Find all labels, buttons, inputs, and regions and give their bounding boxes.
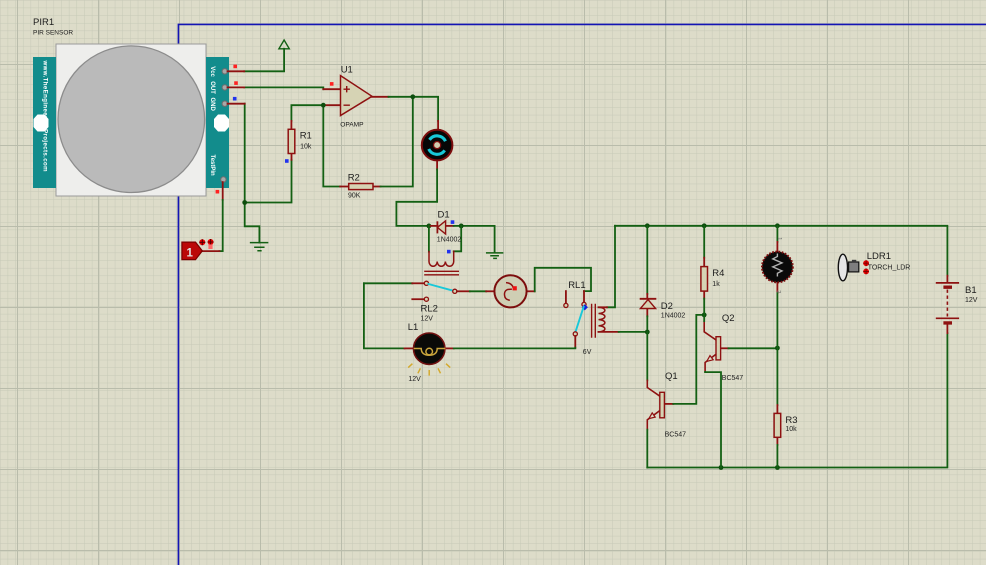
wire R4 bottom to junction (green) xyxy=(703,299,705,315)
LDR (torch ldr) xyxy=(762,237,793,293)
lamp left stub (maroon) xyxy=(405,347,413,349)
svg-text:TORCH_LDR: TORCH_LDR xyxy=(868,264,911,271)
RL2 NC contact stub (maroon) xyxy=(412,298,424,300)
svg-text:D1: D1 xyxy=(438,210,450,221)
svg-text:L1: L1 xyxy=(408,322,419,333)
RL2 switch pivot contact xyxy=(424,281,428,285)
R1 bottom stub (maroon) xyxy=(291,154,293,160)
R2 right stub (maroon) xyxy=(373,186,381,188)
pin TestPin xyxy=(221,177,226,182)
node: output junction xyxy=(410,94,415,99)
wire rail down to D2 cathode (green) xyxy=(646,226,648,294)
svg-text:1N4002: 1N4002 xyxy=(437,237,462,244)
RL1 moving contact stub (maroon) xyxy=(574,336,576,348)
RL1 NC contact stub (maroon) xyxy=(565,291,567,303)
svg-text:RL1: RL1 xyxy=(568,280,585,291)
svg-text:12V: 12V xyxy=(408,376,421,383)
diode D1 xyxy=(437,210,462,244)
power symbol (arrow up) xyxy=(279,40,289,49)
wire R3 bottom to bottom rail (green) xyxy=(776,445,778,468)
node: rail-R4 xyxy=(702,223,707,228)
Q1 emitter stub (maroon) xyxy=(647,410,660,430)
RL1 switch blade (cyan) xyxy=(576,307,584,332)
svg-text:GND: GND xyxy=(209,98,215,112)
wire Q1 emitter to bottom rail (green) xyxy=(646,430,648,468)
resistor R1 xyxy=(288,129,312,153)
RL1 moving contact xyxy=(573,332,577,336)
svg-text:12V: 12V xyxy=(421,316,434,323)
R4 bottom stub (maroon) xyxy=(703,291,705,299)
lamp L1 xyxy=(408,322,451,383)
wire to RL2 switch pivot (green) xyxy=(364,282,412,284)
resistor R3 xyxy=(774,413,797,437)
node: rail-LDR xyxy=(775,223,780,228)
svg-text:10k: 10k xyxy=(785,426,797,433)
pin OUT xyxy=(222,85,227,90)
speaker icon LDR1 xyxy=(838,251,910,281)
svg-text:Vcc: Vcc xyxy=(209,66,215,77)
svg-text:1k: 1k xyxy=(712,281,720,288)
buzzer xyxy=(494,275,526,307)
svg-text:Q2: Q2 xyxy=(722,313,735,324)
wire OUT pin stub (maroon) xyxy=(228,86,245,88)
RL2 switch end contact xyxy=(453,289,457,293)
node: bottom rail Q2 emitter xyxy=(719,465,724,470)
wire RL1 coil top feed from top rail (green) xyxy=(607,226,615,307)
wire D1 right junction down to RL2 coil right (green) xyxy=(454,226,462,251)
node: LDR/R3/Q2 base junction xyxy=(775,346,780,351)
svg-text:LDR1: LDR1 xyxy=(867,251,891,262)
wire bottom rail (green) xyxy=(647,333,947,467)
D2 cathode stub (maroon) xyxy=(646,294,648,298)
svg-text:www.TheEngineeringProjects.com: www.TheEngineeringProjects.com xyxy=(42,60,49,173)
resistor R4 xyxy=(701,267,725,292)
marker 1 (origin flag) xyxy=(182,239,214,260)
relay RL2 core xyxy=(425,271,458,275)
RL2 end contact stub (maroon) xyxy=(457,290,470,292)
wire D2 anode to junction (green) xyxy=(646,316,648,332)
relay coil RL1 top stub (maroon) xyxy=(599,306,608,308)
diode D2 xyxy=(640,299,686,320)
motor xyxy=(422,130,453,161)
svg-text:RL2: RL2 xyxy=(421,303,438,314)
relay coil RL2 (inductor) xyxy=(429,251,454,266)
wire GND pin stub (maroon) xyxy=(228,103,245,105)
op-amp output stub (maroon) xyxy=(372,96,389,98)
transistor Q1 xyxy=(660,371,686,438)
svg-text:BC547: BC547 xyxy=(665,431,687,438)
R2 left stub (maroon) xyxy=(340,186,349,188)
Q1 emitter arrowhead xyxy=(649,413,655,419)
relay RL1 core xyxy=(592,305,596,338)
ground symbol xyxy=(251,243,268,251)
wire lamp L1 row (green) xyxy=(364,283,405,348)
wire Q2 emitter to bottom rail (green) xyxy=(705,372,721,468)
Q2 emitter arrowhead xyxy=(707,356,713,362)
wire buzzer to RL1 common contact (green) xyxy=(535,268,591,292)
svg-text:R1: R1 xyxy=(300,131,312,142)
wire Vcc pin stub (maroon) xyxy=(228,70,245,72)
pin GND xyxy=(222,101,227,106)
svg-text:U1: U1 xyxy=(341,65,353,76)
svg-text:1: 1 xyxy=(776,237,782,240)
wire Vcc pin to power rail (green) xyxy=(244,49,284,72)
transistor Q2 xyxy=(716,313,743,382)
lamp right stub (maroon) xyxy=(446,347,454,349)
svg-text:R3: R3 xyxy=(785,415,797,426)
buzzer right stub (maroon) xyxy=(527,290,535,292)
wire TestPin stub (maroon) xyxy=(222,182,224,200)
wire rail down to R4 (green) xyxy=(703,226,705,258)
svg-text:2: 2 xyxy=(775,290,781,293)
wire RL2 contact to buzzer (green) xyxy=(470,290,486,292)
R4 top stub (maroon) xyxy=(703,258,705,267)
svg-text:D2: D2 xyxy=(661,301,673,312)
svg-text:R2: R2 xyxy=(348,172,360,183)
pin Vcc xyxy=(222,69,227,74)
wire lamp to RL1 moving contact (green) xyxy=(454,347,576,350)
RL2 pivot stub (maroon) xyxy=(412,282,424,284)
wire top supply rail (green) xyxy=(615,226,947,276)
LDR top stub (maroon) xyxy=(776,242,778,251)
svg-text:BC547: BC547 xyxy=(722,375,744,382)
LDR bottom stub (maroon) xyxy=(776,283,778,293)
svg-text:PIR SENSOR: PIR SENSOR xyxy=(33,30,73,37)
wire LDR bottom through junction to R3 (green) xyxy=(776,293,778,405)
wire ground junction to ground symbol (green) xyxy=(245,203,260,243)
svg-text:OUT: OUT xyxy=(209,81,215,94)
wire OUT pin to op-amp + input (green) xyxy=(244,87,323,89)
svg-text:6V: 6V xyxy=(583,349,592,356)
node: - input junction xyxy=(321,103,326,108)
RL1 common contact xyxy=(582,302,586,306)
svg-text:OPAMP: OPAMP xyxy=(340,122,364,129)
wire GND pin down to ground junction (green) xyxy=(244,104,246,203)
RL2 NC contact xyxy=(424,297,428,301)
labels RL1 xyxy=(568,280,591,356)
R1 top stub (maroon) xyxy=(290,121,292,129)
svg-text:R4: R4 xyxy=(712,268,724,279)
Q2 base stub (maroon) xyxy=(721,347,729,349)
Q2 collector stub (maroon) xyxy=(704,321,716,340)
buzzer left stub (maroon) xyxy=(486,290,494,292)
wire motor bottom to D1 anode (green) xyxy=(396,169,437,226)
RL1 NC contact xyxy=(564,303,568,307)
motor bottom stub (maroon) xyxy=(436,161,438,169)
wire Q1 base up to R4 junction (green) xyxy=(673,315,704,404)
pin colour markers (red/blue squares) xyxy=(216,65,455,254)
RL1 common contact stub (maroon) xyxy=(583,291,585,302)
op-amp + input stub (maroon) xyxy=(323,88,340,90)
relay coil RL1 bottom stub (maroon) xyxy=(599,331,619,333)
wire junction down to Q1 collector (green) xyxy=(646,332,648,380)
R3 bottom stub (maroon) xyxy=(776,437,778,445)
battery B1 xyxy=(936,283,978,323)
battery bottom stub (maroon) xyxy=(946,325,948,334)
wire junction to Q2 collector (green) xyxy=(703,315,705,321)
marker pin stub (maroon) xyxy=(202,250,219,252)
wire R2 right to output junction (green) xyxy=(381,97,413,187)
relay coil RL1 (inductor) xyxy=(599,307,605,332)
svg-text:90K: 90K xyxy=(348,193,361,200)
node: D2/RL1/Q1 junction xyxy=(645,330,650,335)
D1 cathode-side stub (maroon) xyxy=(429,225,454,227)
svg-text:10k: 10k xyxy=(300,144,312,151)
R3 top stub (maroon) xyxy=(776,405,778,413)
svg-text:12V: 12V xyxy=(965,297,978,304)
op-amp - input stub (maroon) xyxy=(323,104,340,106)
svg-text:1N4002: 1N4002 xyxy=(661,312,686,319)
motor top stub (maroon) xyxy=(437,121,439,129)
battery top stub (maroon) xyxy=(946,276,948,283)
node: rail-D2 xyxy=(645,223,650,228)
ground symbol (right of D1) xyxy=(487,253,503,259)
wire Q2 base to LDR column (green) xyxy=(729,347,778,349)
resistor R2 xyxy=(348,172,373,199)
svg-text:TestPin: TestPin xyxy=(209,155,215,177)
wire D1 anode down to relay RL2 coil left (green) xyxy=(428,226,430,252)
Q1 base stub (maroon) xyxy=(664,403,673,405)
wire TestPin to marker (green) xyxy=(219,200,222,251)
wire op-amp - input to R1 top (green) xyxy=(291,105,323,121)
svg-text:B1: B1 xyxy=(965,285,977,296)
node: D1 right junction xyxy=(459,224,464,229)
wire output junction (green) xyxy=(389,97,439,121)
op-amp U1 xyxy=(340,65,372,129)
RL1 blue marker xyxy=(582,304,588,310)
sheet border (navy) xyxy=(178,24,986,565)
svg-text:PIR1: PIR1 xyxy=(33,17,54,28)
wire ground junction to R1 bottom (green) xyxy=(245,160,292,203)
wire RL1 coil bottom to D2 junction (green) xyxy=(619,331,648,333)
wire rail down to LDR (green) xyxy=(776,226,778,242)
node: bottom rail R3 xyxy=(775,465,780,470)
wire - input down to R2 left (green) xyxy=(323,105,340,186)
node: D1 anode junction xyxy=(427,224,432,229)
Q2 emitter stub (maroon) xyxy=(705,354,716,372)
labels RL2 xyxy=(421,303,438,322)
svg-text:1: 1 xyxy=(187,248,194,260)
node: GND junction xyxy=(242,200,247,205)
Q1 collector stub (maroon) xyxy=(647,380,660,396)
D2 anode stub (maroon) xyxy=(646,309,648,317)
node: R4/Q2 collector/Q1 base junction xyxy=(702,313,707,318)
wire D1 right to ground (green) xyxy=(454,226,495,252)
RL2 switch blade (cyan) xyxy=(429,284,453,291)
PIR sensor module PIR1 xyxy=(33,17,229,196)
svg-text:Q1: Q1 xyxy=(665,371,678,382)
